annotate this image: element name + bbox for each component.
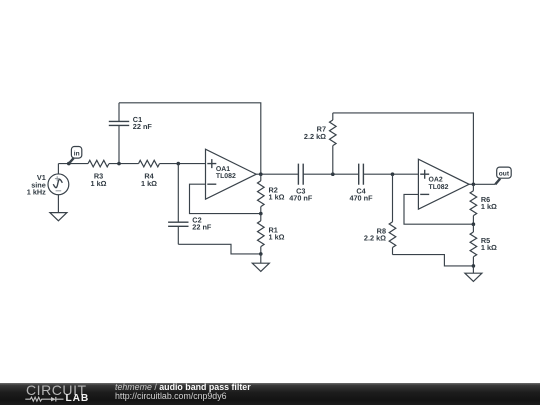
wire C1 top feedback — [119, 103, 261, 174]
wire R8-to-ground-node — [393, 255, 474, 266]
C2 labels — [192, 216, 212, 232]
wire C3-to-R7node — [303, 173, 359, 175]
svg-text:TL082: TL082 — [429, 184, 449, 191]
logo CIRCUIT — [26, 383, 87, 399]
resistor R7 — [330, 113, 337, 174]
R2 labels — [269, 186, 285, 202]
voltage source V1 — [48, 164, 69, 213]
capacitor C1 — [109, 103, 129, 164]
OA1 labels — [216, 166, 236, 180]
node C1 tap — [117, 162, 121, 166]
node R5 ground — [472, 264, 476, 268]
url line — [115, 391, 226, 401]
svg-text:2.2 kΩ: 2.2 kΩ — [364, 234, 386, 243]
node R1 ground — [259, 252, 263, 256]
resistor R4 — [139, 160, 160, 167]
footer bar — [0, 383, 540, 405]
node R8 tap — [391, 172, 395, 176]
C4 labels — [349, 186, 373, 202]
node R6-R5 — [472, 222, 476, 226]
wire C2-to-ground-node — [178, 244, 260, 254]
resistor R8 — [389, 174, 396, 254]
OA2 labels — [429, 176, 449, 190]
node R2-R1 — [259, 212, 263, 216]
R7 labels — [304, 125, 326, 141]
resistor R6 — [470, 184, 477, 224]
wire R7 top feedback — [333, 113, 474, 184]
svg-text:OA1: OA1 — [216, 166, 230, 173]
resistor R5 — [470, 224, 477, 266]
wire OA2 output — [469, 183, 495, 185]
wire OA2 minus input — [404, 194, 473, 224]
flag out — [495, 167, 511, 184]
R6 labels — [481, 195, 497, 211]
R4 labels — [141, 172, 157, 188]
resistor R2 — [258, 174, 265, 213]
svg-text:1 kΩ: 1 kΩ — [481, 243, 497, 252]
ground for V1 — [50, 213, 67, 221]
op-amp OA1 — [206, 149, 257, 199]
svg-text:1 kΩ: 1 kΩ — [141, 179, 157, 188]
wire OA1 output — [256, 173, 298, 175]
node C2 tap — [177, 162, 181, 166]
V1 labels — [27, 173, 46, 197]
svg-text:470 nF: 470 nF — [349, 194, 373, 203]
wire OA1 minus input — [190, 184, 261, 213]
wire R3-to-R4 — [109, 163, 139, 165]
svg-text:in: in — [74, 150, 80, 157]
svg-text:out: out — [499, 170, 510, 177]
svg-text:2.2 kΩ: 2.2 kΩ — [304, 132, 326, 141]
wire C4-to-opamp — [363, 173, 418, 175]
flag in — [69, 147, 82, 164]
capacitor C3 — [298, 164, 303, 185]
node in-flag — [67, 162, 71, 166]
capacitor C2 — [168, 164, 188, 245]
capacitor C4 — [359, 164, 364, 185]
R5 labels — [481, 236, 497, 252]
ground for R1 — [252, 254, 269, 272]
C1 labels — [133, 115, 153, 131]
resistor R1 — [258, 214, 265, 254]
svg-text:1 kΩ: 1 kΩ — [91, 179, 107, 188]
svg-text:470 nF: 470 nF — [289, 194, 313, 203]
ground for R5 — [465, 266, 482, 282]
R3 labels — [91, 172, 107, 188]
C3 labels — [289, 186, 313, 202]
wire V1-to-R3 — [58, 163, 88, 165]
svg-text:1 kΩ: 1 kΩ — [269, 193, 285, 202]
node OA1 output — [259, 172, 263, 176]
svg-text:22 nF: 22 nF — [133, 122, 153, 131]
R1 labels — [269, 226, 285, 242]
svg-text:1 kΩ: 1 kΩ — [269, 233, 285, 242]
svg-text:1 kΩ: 1 kΩ — [481, 202, 497, 211]
svg-text:1 kHz: 1 kHz — [27, 188, 46, 197]
R8 labels — [364, 227, 386, 243]
svg-text:22 nF: 22 nF — [192, 223, 212, 232]
svg-text:TL082: TL082 — [216, 173, 236, 180]
op-amp OA2 — [418, 159, 469, 209]
node OA2 output — [472, 183, 476, 187]
wire R4-to-opamp — [160, 163, 206, 165]
resistor R3 — [88, 160, 109, 167]
logo squiggle and LAB — [25, 394, 95, 405]
title line — [115, 382, 251, 392]
svg-text:OA2: OA2 — [429, 176, 443, 183]
node R7 tap — [331, 172, 335, 176]
